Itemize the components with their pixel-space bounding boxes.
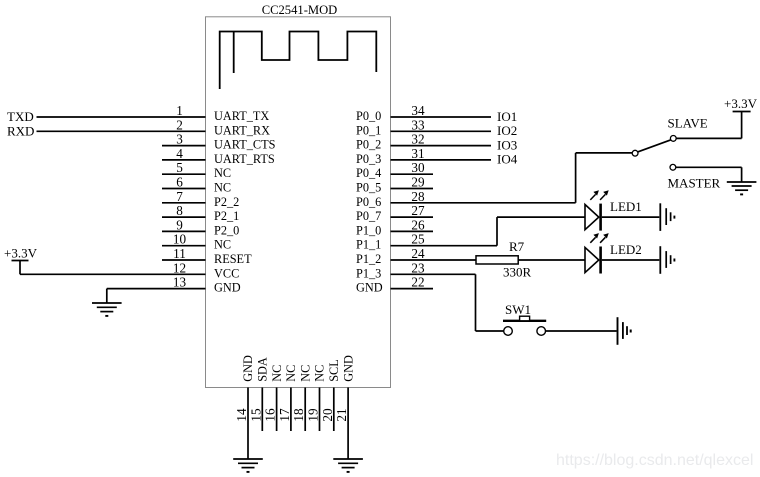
- pin 16 wire (NC): [276, 388, 278, 432]
- ground symbol (right of LED2, rotated): [660, 246, 674, 274]
- svg-text:4: 4: [176, 146, 183, 161]
- pin 4 name label UART_RTS: [214, 152, 275, 166]
- pin 23 number label: [411, 260, 425, 275]
- pin 8 wire (P2_1): [162, 216, 206, 218]
- pushbutton SW1 symbol: [503, 316, 546, 335]
- node IO2 label: [497, 123, 517, 138]
- svg-text:19: 19: [306, 408, 321, 422]
- pin 32 name label P0_2: [356, 138, 381, 152]
- pin 10 number label: [173, 232, 187, 247]
- svg-text:NC: NC: [284, 365, 298, 382]
- svg-text:32: 32: [411, 132, 424, 147]
- svg-text:27: 27: [411, 203, 425, 218]
- wire LED1 cathode to ground: [602, 216, 659, 218]
- resistor R7 value label 330R: [503, 265, 532, 280]
- pin 27 number label: [411, 203, 425, 218]
- pin 18 number label: [291, 408, 306, 422]
- pin 25 wire (P1_1): [391, 245, 498, 247]
- power +3.3V symbol (left, to VCC): [4, 246, 38, 275]
- resistor R7 body: [476, 256, 518, 264]
- svg-text:P0_2: P0_2: [356, 138, 381, 152]
- svg-text:GND: GND: [341, 355, 355, 382]
- svg-text:1: 1: [176, 103, 183, 118]
- pin 25 number label: [411, 232, 425, 247]
- svg-text:SDA: SDA: [256, 357, 270, 382]
- ground symbol (right of LED1, rotated): [660, 203, 674, 231]
- module U1 CC2541-MOD body: [206, 17, 391, 388]
- svg-text:UART_RTS: UART_RTS: [214, 152, 275, 166]
- svg-text:10: 10: [173, 232, 187, 247]
- pin 18 name label NC: [298, 365, 312, 382]
- svg-text:12: 12: [173, 260, 186, 275]
- svg-text:P0_7: P0_7: [356, 209, 381, 223]
- svg-text:UART_CTS: UART_CTS: [214, 138, 276, 152]
- svg-text:P0_3: P0_3: [356, 152, 381, 166]
- pin 16 number label: [263, 408, 278, 422]
- pin 19 name label NC: [313, 365, 327, 382]
- svg-text:23: 23: [411, 260, 425, 275]
- svg-text:17: 17: [277, 408, 292, 422]
- pin 3 number label: [176, 132, 183, 147]
- pin 1 name label UART_TX: [214, 109, 269, 123]
- pin 22 number label: [411, 275, 424, 290]
- svg-text:5: 5: [176, 160, 183, 175]
- node RXD label: [7, 124, 34, 139]
- pin 34 name label P0_0: [356, 109, 381, 123]
- pin 11 wire (RESET): [162, 259, 206, 261]
- pin 33 name label P0_1: [356, 123, 381, 137]
- pin 9 name label P2_0: [214, 223, 239, 237]
- pin 30 name label P0_4: [356, 166, 381, 180]
- ground symbol (left, pin 13 GND): [92, 289, 122, 316]
- svg-text:P1_2: P1_2: [356, 252, 381, 266]
- pin 13 name label GND: [214, 281, 241, 295]
- pin 20 number label: [320, 408, 335, 422]
- pin 12 wire (VCC): [20, 273, 206, 275]
- power +3.3V symbol (top right): [724, 96, 758, 138]
- pin 14 number label: [234, 408, 249, 422]
- pin 26 number label: [411, 217, 425, 232]
- pin 15 name label SDA: [256, 357, 270, 382]
- ground symbol (pin 14 GND bottom): [233, 459, 263, 472]
- pin 33 wire (P0_1): [391, 130, 492, 132]
- svg-text:33: 33: [411, 117, 425, 132]
- pin 21 number label: [334, 408, 349, 421]
- pin 7 name label P2_2: [214, 195, 239, 209]
- svg-text:RXD: RXD: [7, 124, 34, 139]
- svg-text:P2_0: P2_0: [214, 223, 239, 237]
- pin 10 name label NC: [214, 238, 231, 252]
- wire R7 to LED2 anode: [518, 259, 585, 261]
- node IO1 label: [497, 109, 517, 124]
- svg-text:MASTER: MASTER: [668, 176, 721, 191]
- ground symbol (right of SW1, rotated): [618, 317, 631, 345]
- pin 32 wire (P0_2): [391, 145, 492, 147]
- pin 12 number label: [173, 260, 186, 275]
- node TXD label: [7, 109, 34, 124]
- ground symbol (pin 21 GND bottom): [333, 459, 363, 472]
- pin 31 number label: [411, 146, 424, 161]
- svg-text:P2_2: P2_2: [214, 195, 239, 209]
- svg-text:13: 13: [173, 275, 187, 290]
- pin 1 number label: [176, 103, 183, 118]
- svg-text:P1_0: P1_0: [356, 223, 381, 237]
- svg-text:28: 28: [411, 189, 425, 204]
- svg-text:P0_0: P0_0: [356, 109, 381, 123]
- switch S1 MASTER contact circle: [670, 164, 676, 170]
- pin 29 wire (P0_5): [391, 188, 434, 190]
- switch S1 SLAVE contact circle: [670, 136, 676, 142]
- svg-text:3: 3: [176, 132, 183, 147]
- svg-text:P0_1: P0_1: [356, 123, 381, 137]
- svg-text:CC2541-MOD: CC2541-MOD: [262, 3, 338, 17]
- pin 22 wire (GND): [391, 288, 434, 290]
- svg-text:TXD: TXD: [7, 109, 34, 124]
- pin 13 wire (GND): [107, 288, 206, 290]
- pin 3 name label UART_CTS: [214, 138, 276, 152]
- pin 15 number label: [248, 408, 263, 422]
- pin 21 name label GND: [341, 355, 355, 382]
- svg-text:20: 20: [320, 408, 335, 422]
- wire SLAVE contact to +3.3V: [676, 137, 741, 139]
- pin 34 wire (P0_0): [391, 116, 492, 118]
- svg-text:GND: GND: [356, 281, 383, 295]
- LED2 emission arrows: [590, 233, 608, 243]
- wire LED2 cathode to ground: [602, 259, 659, 261]
- svg-text:6: 6: [176, 175, 183, 190]
- antenna feed stub: [233, 32, 235, 74]
- svg-text:34: 34: [411, 103, 425, 118]
- pin 25 name label P1_1: [356, 238, 381, 252]
- pin 27 name label P0_7: [356, 209, 381, 223]
- pin 24 name label P1_2: [356, 252, 381, 266]
- ground symbol (below MASTER wire): [727, 182, 757, 194]
- pin 32 number label: [411, 132, 424, 147]
- LED LED2 diode symbol: [585, 247, 601, 274]
- pin 14 name label GND: [241, 355, 255, 382]
- wire SW1 to ground: [546, 330, 617, 332]
- svg-text:LED1: LED1: [610, 199, 642, 214]
- pin 8 name label P2_1: [214, 209, 239, 223]
- svg-text:P1_1: P1_1: [356, 238, 381, 252]
- svg-text:18: 18: [291, 408, 306, 422]
- pin 34 number label: [411, 103, 425, 118]
- svg-text:14: 14: [234, 408, 249, 422]
- svg-text:9: 9: [176, 217, 183, 232]
- pin 14 wire (GND): [247, 388, 249, 460]
- svg-text:https://blog.csdn.net/qlexcel: https://blog.csdn.net/qlexcel: [556, 452, 753, 469]
- pin 24 wire (P1_2): [391, 259, 477, 261]
- pin 29 number label: [411, 175, 425, 190]
- svg-text:GND: GND: [214, 281, 241, 295]
- svg-text:P0_5: P0_5: [356, 181, 381, 195]
- pin 28 wire (P0_6): [391, 202, 576, 204]
- node IO3 label: [497, 137, 517, 152]
- pin 26 name label P1_0: [356, 223, 381, 237]
- svg-text:VCC: VCC: [214, 266, 239, 280]
- svg-text:+3.3V: +3.3V: [4, 246, 38, 261]
- pin 24 number label: [411, 246, 425, 261]
- node MASTER label: [668, 176, 721, 191]
- svg-text:NC: NC: [313, 365, 327, 382]
- svg-text:24: 24: [411, 246, 425, 261]
- pin 17 number label: [277, 408, 292, 422]
- pin 6 number label: [176, 175, 183, 190]
- pin 11 number label: [173, 246, 186, 261]
- svg-text:P0_6: P0_6: [356, 195, 381, 209]
- pin 33 number label: [411, 117, 425, 132]
- svg-text:SW1: SW1: [505, 302, 531, 317]
- resistor R7 reference label: [509, 239, 525, 254]
- svg-text:IO4: IO4: [497, 152, 518, 167]
- svg-text:8: 8: [176, 203, 183, 218]
- wire P1_1 net up to LED1 row: [497, 217, 585, 246]
- pin 23 wire (P1_3): [391, 273, 476, 275]
- switch S1 common contact circle: [632, 150, 638, 156]
- svg-text:NC: NC: [214, 238, 231, 252]
- svg-text:31: 31: [411, 146, 424, 161]
- pin 4 number label: [176, 146, 183, 161]
- svg-text:R7: R7: [509, 239, 525, 254]
- pin 9 number label: [176, 217, 183, 232]
- pin 3 wire (UART_CTS): [162, 145, 206, 147]
- svg-text:IO3: IO3: [497, 137, 517, 152]
- module U1 name label CC2541-MOD: [262, 3, 338, 17]
- pin 2 number label: [176, 117, 183, 132]
- watermark text: [556, 452, 753, 469]
- pin 6 name label NC: [214, 181, 231, 195]
- pin 1 wire (UART_TX): [37, 116, 206, 118]
- svg-text:GND: GND: [241, 355, 255, 382]
- svg-text:22: 22: [411, 275, 424, 290]
- switch S1 lever (diagonal): [638, 140, 671, 152]
- LED LED1 diode symbol: [585, 204, 601, 231]
- svg-text:+3.3V: +3.3V: [724, 96, 758, 111]
- pin 30 wire (P0_4): [391, 173, 434, 175]
- pin 21 wire (GND): [347, 388, 349, 460]
- pin 9 wire (P2_0): [162, 230, 206, 232]
- wire P0_6 net vertical+horizontal to switch common: [576, 153, 633, 203]
- wire P1_3 net down to SW1: [476, 274, 504, 331]
- pin 11 name label RESET: [214, 252, 252, 266]
- pin 28 name label P0_6: [356, 195, 381, 209]
- svg-text:P0_4: P0_4: [356, 166, 381, 180]
- svg-text:SLAVE: SLAVE: [668, 116, 708, 131]
- svg-text:2: 2: [176, 117, 183, 132]
- pin 27 wire (P0_7): [391, 216, 434, 218]
- pin 5 name label NC: [214, 166, 231, 180]
- svg-text:330R: 330R: [503, 265, 532, 280]
- pin 15 wire (SDA): [261, 388, 263, 432]
- wire MASTER contact to ground: [676, 167, 742, 182]
- svg-text:30: 30: [411, 160, 425, 175]
- pin 18 wire (NC): [304, 388, 306, 432]
- pin 28 number label: [411, 189, 425, 204]
- svg-text:21: 21: [334, 408, 349, 421]
- pin 29 name label P0_5: [356, 181, 381, 195]
- svg-text:25: 25: [411, 232, 425, 247]
- pin 10 wire (NC): [162, 245, 206, 247]
- pin 17 name label NC: [284, 365, 298, 382]
- pin 6 wire (NC): [162, 188, 206, 190]
- pin 26 wire (P1_0): [391, 230, 434, 232]
- pin 2 wire (UART_RX): [37, 130, 206, 132]
- svg-text:IO2: IO2: [497, 123, 517, 138]
- pin 13 number label: [173, 275, 187, 290]
- pin 4 wire (UART_RTS): [162, 159, 206, 161]
- pin 5 wire (NC): [162, 173, 206, 175]
- pin 7 number label: [176, 189, 183, 204]
- pin 17 wire (NC): [290, 388, 292, 432]
- pin 19 number label: [306, 408, 321, 422]
- svg-text:15: 15: [248, 408, 263, 422]
- svg-text:IO1: IO1: [497, 109, 517, 124]
- pin 20 name label SCL: [327, 359, 341, 382]
- pin 20 wire (SCL): [333, 388, 335, 432]
- svg-text:16: 16: [263, 408, 278, 422]
- svg-text:RESET: RESET: [214, 252, 252, 266]
- node SLAVE label: [668, 116, 708, 131]
- pin 7 wire (P2_2): [162, 202, 206, 204]
- svg-text:P2_1: P2_1: [214, 209, 239, 223]
- svg-text:UART_RX: UART_RX: [214, 123, 270, 137]
- pin 19 wire (NC): [319, 388, 321, 432]
- pin 31 name label P0_3: [356, 152, 381, 166]
- pin 8 number label: [176, 203, 183, 218]
- svg-text:NC: NC: [214, 181, 231, 195]
- pin 23 name label P1_3: [356, 266, 381, 280]
- svg-text:26: 26: [411, 217, 425, 232]
- LED2 reference label: [610, 242, 642, 257]
- pin 22 name label GND: [356, 281, 383, 295]
- node IO4 label: [497, 152, 518, 167]
- svg-text:7: 7: [176, 189, 183, 204]
- pin 31 wire (P0_3): [391, 159, 492, 161]
- switch SW1 reference label: [505, 302, 531, 317]
- LED1 emission arrows: [590, 190, 608, 200]
- svg-text:NC: NC: [270, 365, 284, 382]
- svg-text:NC: NC: [298, 365, 312, 382]
- LED1 reference label: [610, 199, 642, 214]
- svg-text:11: 11: [173, 246, 186, 261]
- pin 5 number label: [176, 160, 183, 175]
- svg-text:UART_TX: UART_TX: [214, 109, 269, 123]
- pin 16 name label NC: [270, 365, 284, 382]
- pin 30 number label: [411, 160, 425, 175]
- svg-text:LED2: LED2: [610, 242, 642, 257]
- antenna meander trace inside module: [220, 32, 377, 90]
- pin 12 name label VCC: [214, 266, 239, 280]
- svg-text:P1_3: P1_3: [356, 266, 381, 280]
- svg-text:NC: NC: [214, 166, 231, 180]
- svg-text:SCL: SCL: [327, 359, 341, 382]
- pin 2 name label UART_RX: [214, 123, 270, 137]
- svg-text:29: 29: [411, 175, 425, 190]
